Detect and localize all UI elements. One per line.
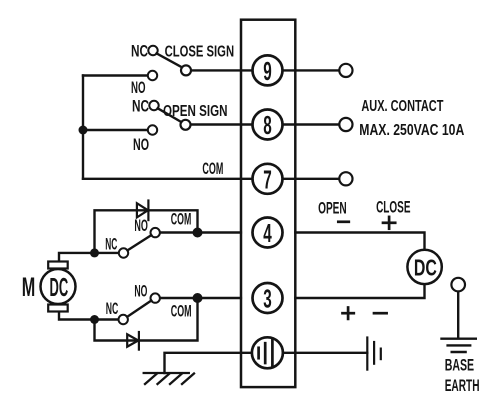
terminal 3 <box>253 283 283 313</box>
plus sign terminal 3 line <box>343 308 354 319</box>
junction dot COM terminal 3 <box>193 293 203 303</box>
svg-text:MAX. 250VAC 10A: MAX. 250VAC 10A <box>359 122 464 139</box>
wire motor top lead <box>59 253 95 262</box>
aux contact circle terminal 7 <box>339 172 352 185</box>
aux contact circle terminal 9 <box>339 64 352 77</box>
svg-text:NC: NC <box>106 299 119 318</box>
upper motor switch NO contact circle <box>151 228 160 237</box>
lower motor switch lever <box>127 301 151 317</box>
junction dot motor top <box>90 248 99 257</box>
wire upper diode branch <box>95 210 198 253</box>
wire switch B common to terminal 8 to aux contact circle <box>186 123 340 125</box>
diode D2 lower <box>127 332 139 350</box>
minus sign terminal 3 line <box>374 312 387 315</box>
svg-text:8: 8 <box>263 110 272 140</box>
terminal 7 <box>253 164 283 194</box>
junction dot motor bottom <box>90 315 99 324</box>
svg-text:COM: COM <box>171 210 192 229</box>
lower motor switch NC contact circle <box>119 315 128 324</box>
svg-text:OPEN SIGN: OPEN SIGN <box>163 103 228 120</box>
wire junction to NC contact (upper motor switch) <box>95 252 120 254</box>
svg-text:CLOSE SIGN: CLOSE SIGN <box>165 43 235 60</box>
wire switch B NO contact to left bus junction <box>83 129 148 131</box>
svg-text:BASE: BASE <box>445 355 474 374</box>
switch B NO contact circle <box>148 125 157 134</box>
svg-text:7: 7 <box>263 164 272 194</box>
wire left bus vertical <box>82 76 84 179</box>
wire junction to NC contact (lower motor switch) <box>95 318 119 320</box>
upper motor switch NC contact circle <box>119 248 128 257</box>
wire lower diode branch <box>95 298 198 341</box>
terminal block outline <box>241 20 295 387</box>
svg-text:NO: NO <box>134 216 148 235</box>
minus sign terminal 4 line (open polarity) <box>338 220 349 223</box>
motor M body circle <box>41 269 76 304</box>
earth terminal circle <box>252 337 283 368</box>
functional earth symbol (rotated) <box>367 338 381 370</box>
svg-text:AUX. CONTACT: AUX. CONTACT <box>361 98 443 115</box>
wire switch A common to terminal 9 to aux contact circle <box>186 69 339 71</box>
plus sign terminal 4 line (close polarity) <box>383 217 395 229</box>
wire base earth lead <box>457 291 459 337</box>
lower motor switch NO contact circle <box>151 293 160 302</box>
terminal 8 <box>253 110 283 140</box>
terminal 4 <box>253 218 283 248</box>
switch A common contact circle <box>181 65 191 75</box>
svg-text:4: 4 <box>263 218 272 248</box>
wire COM to terminal 7 to aux contact circle <box>83 178 339 180</box>
wire switch A NO contact to left bus <box>83 74 148 76</box>
base earth terminal circle <box>451 278 465 292</box>
earth terminal symbol bars <box>259 340 273 366</box>
switch A NC contact circle <box>148 46 157 55</box>
svg-text:COM: COM <box>202 159 223 178</box>
svg-text:NC: NC <box>132 97 149 116</box>
svg-text:M: M <box>22 272 36 302</box>
chassis ground symbol <box>144 373 194 384</box>
terminal 9 <box>253 55 283 85</box>
switch B NC contact circle <box>149 101 158 110</box>
svg-text:CLOSE: CLOSE <box>376 198 410 217</box>
svg-text:NC: NC <box>105 234 117 253</box>
switch A NO contact circle <box>148 71 157 80</box>
base earth symbol <box>442 339 476 352</box>
svg-text:NO: NO <box>133 135 149 154</box>
junction dot left bus <box>79 126 88 135</box>
DC supply circle <box>407 250 441 284</box>
wire upper switch NO to terminal 4 <box>160 231 241 233</box>
svg-text:NC: NC <box>131 42 148 61</box>
motor brush top <box>48 262 67 269</box>
wire DC supply minus to terminal 3 <box>295 284 424 298</box>
svg-text:3: 3 <box>263 284 272 314</box>
svg-text:EARTH: EARTH <box>445 376 480 395</box>
svg-text:NO: NO <box>134 282 147 301</box>
svg-text:DC: DC <box>414 254 437 280</box>
svg-text:DC: DC <box>50 272 69 302</box>
switch B lever <box>158 108 182 122</box>
wire earth terminal right to functional earth <box>282 352 367 354</box>
junction dot COM terminal 4 <box>193 228 203 238</box>
upper motor switch lever <box>128 235 152 250</box>
motor brush bottom <box>48 305 67 312</box>
wire lower switch NO to terminal 3 <box>160 297 241 299</box>
svg-text:NO: NO <box>131 78 146 97</box>
switch A lever <box>157 53 182 67</box>
diode D1 upper <box>137 201 149 221</box>
wire terminal 4 to DC supply plus <box>295 233 424 250</box>
svg-text:COM: COM <box>171 302 192 321</box>
wire motor bottom lead <box>59 312 95 320</box>
svg-text:OPEN: OPEN <box>318 199 347 218</box>
aux contact circle terminal 8 <box>339 118 352 131</box>
svg-text:9: 9 <box>263 56 272 86</box>
switch B common contact circle <box>181 120 191 130</box>
wire earth terminal to chassis ground <box>165 353 253 373</box>
